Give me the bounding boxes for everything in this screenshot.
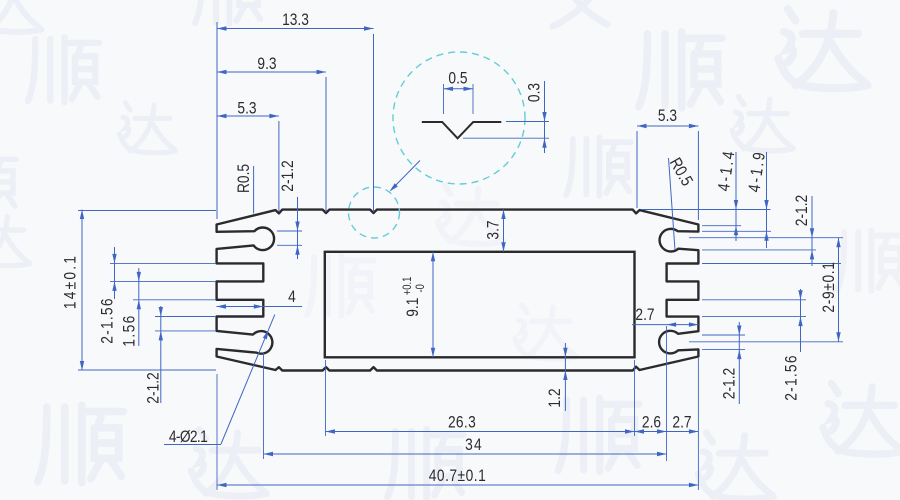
svg-text:2-1.56: 2-1.56 (782, 354, 801, 400)
svg-text:26.3: 26.3 (448, 413, 476, 432)
svg-text:2.7: 2.7 (635, 306, 654, 325)
aluminum extrusion profile outline (217, 210, 699, 371)
svg-text:5.3: 5.3 (237, 99, 256, 118)
svg-text:5.3: 5.3 (658, 107, 677, 126)
dim 40.7±0.1 (216, 374, 218, 490)
dim 13.3 (216, 22, 218, 219)
svg-text:R0.5: R0.5 (235, 164, 254, 193)
svg-text:9.3: 9.3 (257, 55, 276, 74)
detail circle (dashed) (393, 52, 525, 184)
right side extension lines (641, 209, 771, 211)
svg-text:4-Ø2.1: 4-Ø2.1 (169, 428, 207, 447)
detail dim 0.3 (506, 121, 549, 123)
svg-text:2.6: 2.6 (642, 413, 661, 432)
svg-text:2-1.56: 2-1.56 (98, 297, 117, 343)
svg-text:14±0.1: 14±0.1 (61, 254, 80, 309)
svg-text:2-9±0.1: 2-9±0.1 (820, 261, 839, 312)
svg-text:-0: -0 (414, 284, 427, 293)
svg-text:4: 4 (288, 288, 296, 307)
small dashed circle on notch (349, 187, 400, 238)
svg-text:3.7: 3.7 (484, 220, 503, 239)
svg-text:0.5: 0.5 (448, 69, 467, 88)
svg-text:1.2: 1.2 (546, 388, 565, 407)
detail dim 0.5 (443, 84, 445, 114)
dim 5.3 left (278, 121, 280, 212)
svg-text:2-1.2: 2-1.2 (793, 195, 812, 226)
dim 2.6 (666, 326, 668, 461)
svg-text:13.3: 13.3 (282, 11, 309, 30)
dim 9.3 (325, 77, 327, 212)
svg-text:9.1: 9.1 (404, 298, 423, 317)
svg-text:+0.1: +0.1 (401, 276, 414, 295)
dim 34 (263, 353, 265, 459)
detail leader (391, 161, 420, 191)
svg-text:34: 34 (465, 436, 483, 455)
dim 9.1 +0.1/-0 (401, 276, 427, 316)
inner cavity rectangle (325, 252, 635, 357)
svg-text:1.56: 1.56 (120, 314, 139, 346)
watermark (0, 0, 42, 32)
dim 4 slot depth (217, 306, 303, 308)
svg-text:2.7: 2.7 (672, 413, 691, 432)
dim 2.7 bottom (697, 358, 699, 490)
svg-text:40.7±0.1: 40.7±0.1 (429, 467, 486, 486)
svg-text:2-1.2: 2-1.2 (144, 372, 163, 403)
dim 26.3 (325, 360, 327, 436)
svg-text:0.3: 0.3 (525, 83, 544, 102)
detail V-notch profile (422, 122, 502, 138)
svg-text:2-1.2: 2-1.2 (720, 368, 739, 399)
dim 5.3 right (636, 131, 638, 208)
svg-text:2-1.2: 2-1.2 (279, 160, 298, 191)
